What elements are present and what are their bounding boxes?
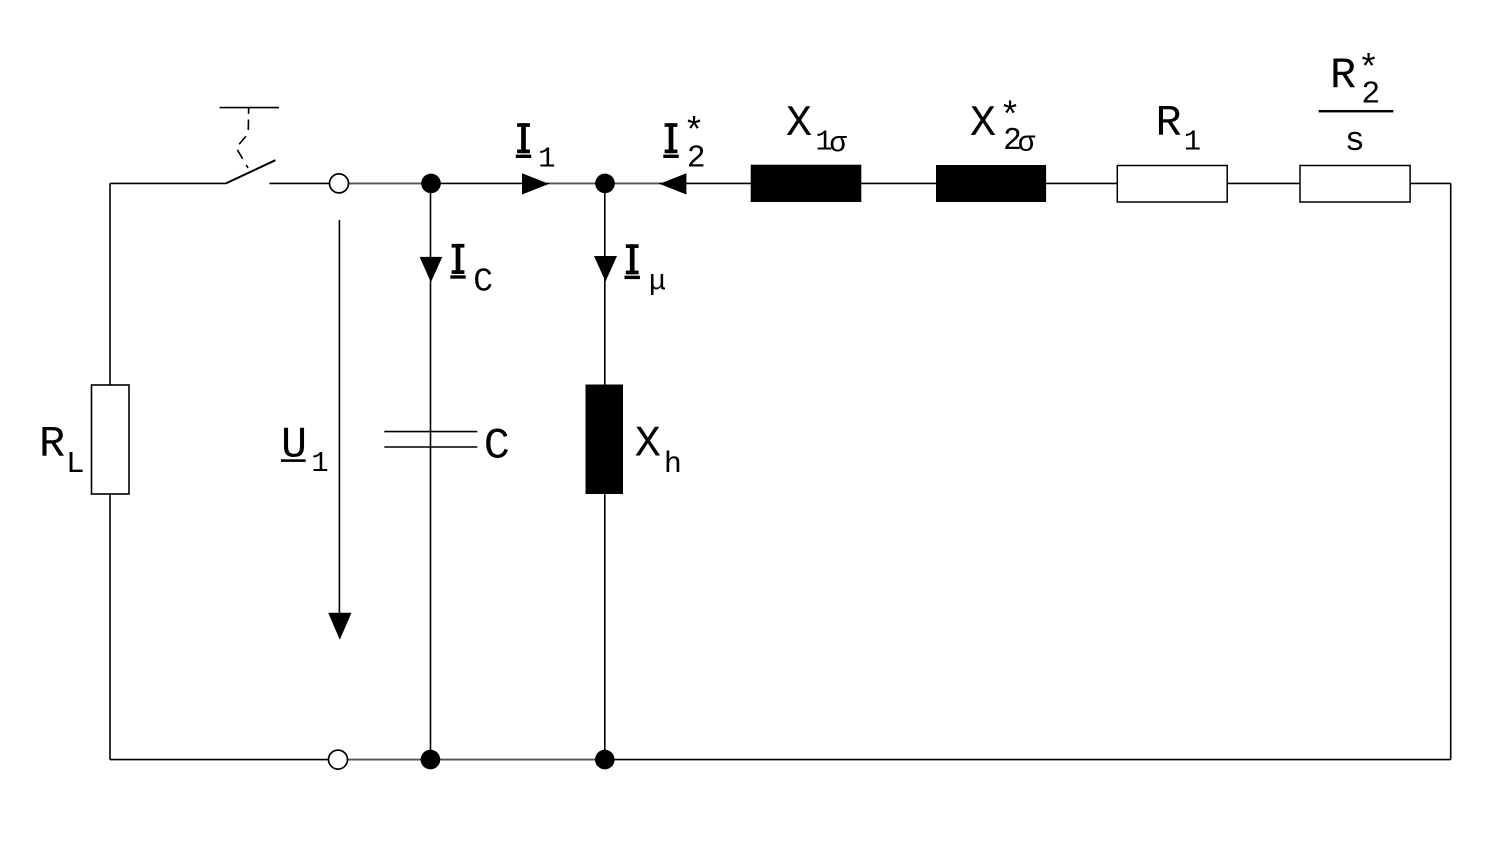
svg-text:R: R	[39, 421, 65, 470]
svg-text:L: L	[66, 447, 85, 482]
svg-text:*: *	[999, 97, 1021, 138]
svg-text:X: X	[786, 100, 812, 149]
svg-text:R: R	[1330, 52, 1356, 101]
svg-text:1: 1	[538, 143, 555, 176]
svg-text:1: 1	[1184, 125, 1201, 158]
svg-text:1: 1	[311, 447, 328, 480]
svg-text:s: s	[1345, 123, 1365, 161]
svg-text:U: U	[281, 422, 307, 471]
svg-text:*: *	[683, 112, 705, 153]
svg-text:μ: μ	[649, 265, 666, 298]
svg-text:X: X	[970, 100, 996, 149]
svg-text:σ: σ	[829, 127, 847, 160]
svg-text:*: *	[1358, 50, 1380, 91]
svg-text:C: C	[484, 423, 510, 472]
svg-text:C: C	[473, 263, 493, 300]
svg-text:R: R	[1156, 100, 1182, 149]
svg-text:X: X	[635, 421, 661, 470]
svg-text:h: h	[664, 448, 682, 482]
